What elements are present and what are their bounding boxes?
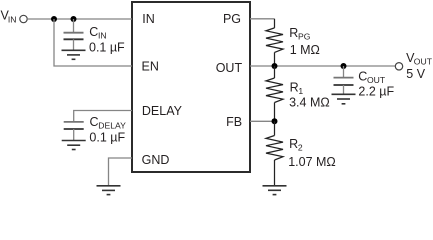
wire CIN drop: [73, 19, 75, 33]
svg-text:FB: FB: [226, 115, 242, 129]
wire PG: right from pin: [250, 18, 275, 20]
svg-text:C: C: [358, 69, 367, 83]
svg-text:3.4 MΩ: 3.4 MΩ: [289, 96, 330, 110]
svg-text:GND: GND: [142, 153, 170, 167]
capacitor C_OUT: [334, 78, 354, 94]
wire OUT: from pin to VOUT terminal: [250, 65, 395, 67]
svg-text:DELAY: DELAY: [98, 120, 126, 130]
ground (below C_DELAY): [62, 141, 86, 150]
node junction dot A (EN tap): [51, 16, 57, 22]
svg-text:R: R: [289, 26, 298, 40]
svg-text:OUT: OUT: [367, 75, 386, 85]
ground (below GND pin): [97, 186, 121, 195]
svg-text:IN: IN: [8, 15, 17, 25]
svg-text:EN: EN: [142, 59, 159, 73]
ground (below R2): [263, 186, 287, 195]
ground (below C_OUT): [332, 94, 356, 104]
resistor R1: [266, 66, 283, 121]
svg-text:PG: PG: [298, 32, 311, 42]
svg-text:C: C: [89, 25, 98, 39]
svg-text:5 V: 5 V: [406, 67, 425, 81]
svg-text:IN: IN: [98, 30, 107, 40]
svg-text:R: R: [289, 137, 298, 151]
ground (below C_IN): [62, 50, 86, 59]
capacitor C_IN: [64, 33, 84, 50]
node junction dot B (CIN tap): [71, 16, 77, 22]
wire VIN to IN pin: [27, 18, 132, 20]
capacitor C_DELAY: [64, 122, 84, 140]
wire FB: [250, 120, 275, 122]
svg-text:IN: IN: [142, 12, 155, 26]
svg-text:OUT: OUT: [216, 61, 243, 75]
svg-text:2.2 µF: 2.2 µF: [358, 85, 394, 99]
wire COUT drop: [343, 66, 345, 78]
node junction dot E (FB tap): [272, 118, 278, 124]
svg-text:PG: PG: [223, 12, 241, 26]
IC U1 box: [132, 2, 250, 172]
svg-text:2: 2: [298, 143, 303, 153]
svg-text:DELAY: DELAY: [142, 104, 183, 118]
svg-text:1: 1: [298, 86, 303, 96]
node junction dot C (R divider tap on OUT): [272, 63, 278, 69]
svg-text:1 MΩ: 1 MΩ: [290, 43, 320, 57]
terminal VOUT: [395, 63, 402, 70]
svg-text:OUT: OUT: [414, 57, 433, 67]
svg-text:0.1 µF: 0.1 µF: [89, 41, 125, 55]
terminal VIN: [20, 15, 27, 22]
svg-text:C: C: [90, 115, 99, 129]
svg-text:0.1 µF: 0.1 µF: [89, 131, 125, 145]
node junction dot D (COUT tap on OUT): [341, 63, 347, 69]
wire GND pin: left then down: [109, 158, 133, 186]
resistor R2: [266, 121, 283, 185]
wire DELAY: left from pin then down: [74, 111, 132, 122]
resistor R_PG: [266, 19, 283, 66]
svg-text:R: R: [290, 80, 299, 94]
svg-text:1.07 MΩ: 1.07 MΩ: [288, 155, 336, 169]
wire EN: down from dot A then right to EN pin: [54, 19, 132, 66]
